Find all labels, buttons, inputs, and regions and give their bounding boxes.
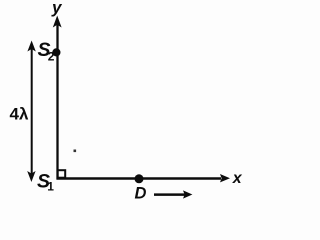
- svg-text:x: x: [232, 170, 243, 187]
- svg-text:y: y: [51, 0, 63, 17]
- svg-text:1: 1: [47, 179, 54, 193]
- svg-text:2: 2: [48, 49, 55, 63]
- svg-text:4λ: 4λ: [10, 105, 29, 124]
- svg-text:D: D: [135, 185, 147, 203]
